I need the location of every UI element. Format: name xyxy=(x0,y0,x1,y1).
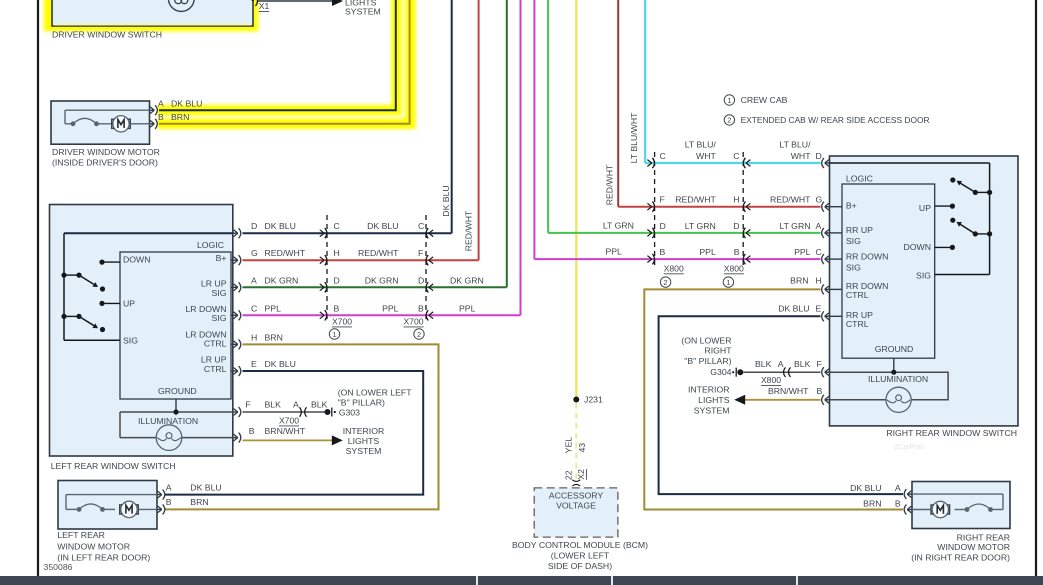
svg-text:PPL: PPL xyxy=(265,303,282,313)
svg-text:A: A xyxy=(166,482,172,492)
svg-text:ILLUMINATION: ILLUMINATION xyxy=(868,374,928,384)
svg-text:LIGHTS: LIGHTS xyxy=(348,436,380,446)
svg-text:WHT: WHT xyxy=(791,151,811,161)
svg-text:A: A xyxy=(158,98,164,108)
svg-text:B: B xyxy=(166,497,172,507)
svg-text:E: E xyxy=(816,304,822,314)
svg-text:X700: X700 xyxy=(403,317,423,327)
svg-text:LT BLU/: LT BLU/ xyxy=(779,140,811,150)
svg-text:RIGHT REAR: RIGHT REAR xyxy=(957,533,1010,543)
svg-text:2: 2 xyxy=(417,330,421,339)
svg-text:RED/WHT: RED/WHT xyxy=(605,164,615,205)
svg-text:D: D xyxy=(334,275,340,285)
svg-text:CTRL: CTRL xyxy=(204,364,227,374)
svg-text:SIDE OF DASH): SIDE OF DASH) xyxy=(548,561,612,571)
svg-text:PPL: PPL xyxy=(459,303,476,313)
svg-text:BLK: BLK xyxy=(794,359,811,369)
svg-text:H: H xyxy=(251,332,257,342)
svg-text:SYSTEM: SYSTEM xyxy=(345,7,381,17)
svg-text:1: 1 xyxy=(726,278,730,287)
svg-text:BRN: BRN xyxy=(190,497,208,507)
svg-text:B: B xyxy=(895,498,901,508)
svg-text:DOWN: DOWN xyxy=(903,242,931,252)
svg-text:LOGIC: LOGIC xyxy=(197,240,224,250)
svg-text:F: F xyxy=(817,359,822,369)
svg-text:LIGHTS: LIGHTS xyxy=(698,395,730,405)
svg-text:X1: X1 xyxy=(259,1,270,11)
svg-text:"B" PILLAR): "B" PILLAR) xyxy=(338,398,385,408)
svg-text:(ON LOWER: (ON LOWER xyxy=(681,336,731,346)
svg-text:WHT: WHT xyxy=(696,151,716,161)
svg-text:F: F xyxy=(245,400,250,410)
svg-text:EXTENDED CAB W/ REAR SIDE ACCE: EXTENDED CAB W/ REAR SIDE ACCESS DOOR xyxy=(741,115,930,125)
svg-text:PPL: PPL xyxy=(605,247,622,257)
svg-text:C: C xyxy=(733,151,739,161)
svg-text:2: 2 xyxy=(727,116,731,125)
svg-text:DK BLU: DK BLU xyxy=(265,221,296,231)
svg-text:C: C xyxy=(334,221,340,231)
svg-text:(IN RIGHT REAR DOOR): (IN RIGHT REAR DOOR) xyxy=(911,553,1010,563)
svg-text:2CarPros: 2CarPros xyxy=(894,444,924,451)
svg-text:PPL: PPL xyxy=(699,247,716,257)
svg-text:ACCESSORY: ACCESSORY xyxy=(549,491,604,501)
svg-text:A: A xyxy=(895,483,901,493)
svg-text:INTERIOR: INTERIOR xyxy=(343,426,385,436)
svg-text:INTERIOR: INTERIOR xyxy=(688,385,730,395)
svg-text:A: A xyxy=(778,359,784,369)
svg-text:C: C xyxy=(418,221,424,231)
svg-text:LEFT REAR: LEFT REAR xyxy=(57,530,105,540)
svg-text:C: C xyxy=(816,247,822,257)
svg-text:G303: G303 xyxy=(339,408,360,418)
svg-text:BRN/WHT: BRN/WHT xyxy=(265,426,306,436)
svg-text:CREW CAB: CREW CAB xyxy=(741,95,788,105)
svg-text:D: D xyxy=(816,151,822,161)
svg-text:DK BLU: DK BLU xyxy=(367,221,398,231)
svg-text:SIG: SIG xyxy=(212,288,227,298)
svg-text:C: C xyxy=(251,303,257,313)
svg-text:DK BLU: DK BLU xyxy=(441,185,451,216)
svg-text:BRN: BRN xyxy=(863,498,881,508)
svg-text:X800: X800 xyxy=(761,375,781,385)
svg-text:BODY CONTROL MODULE (BCM): BODY CONTROL MODULE (BCM) xyxy=(512,540,648,550)
svg-text:UP: UP xyxy=(123,299,135,309)
svg-text:RED/WHT: RED/WHT xyxy=(358,248,399,258)
svg-text:RED/WHT: RED/WHT xyxy=(265,248,306,258)
svg-text:H: H xyxy=(816,276,822,286)
svg-text:DK BLU: DK BLU xyxy=(778,304,809,314)
svg-text:C: C xyxy=(660,151,666,161)
svg-text:LOGIC: LOGIC xyxy=(846,173,873,183)
svg-text:BRN: BRN xyxy=(171,112,189,122)
svg-text:SIG: SIG xyxy=(123,335,138,345)
svg-text:SIG: SIG xyxy=(916,271,931,281)
svg-text:(ON LOWER LEFT: (ON LOWER LEFT xyxy=(338,388,413,398)
svg-text:LT BLU/WHT: LT BLU/WHT xyxy=(629,112,639,164)
svg-text:SIG: SIG xyxy=(846,236,861,246)
svg-text:J231: J231 xyxy=(584,395,603,405)
svg-text:G: G xyxy=(251,248,258,258)
svg-text:SIG: SIG xyxy=(212,313,227,323)
svg-text:BRN/WHT: BRN/WHT xyxy=(768,386,809,396)
svg-text:43: 43 xyxy=(577,443,587,453)
svg-text:H: H xyxy=(733,195,739,205)
svg-text:B: B xyxy=(734,247,740,257)
svg-text:ILLUMINATION: ILLUMINATION xyxy=(138,416,198,426)
svg-text:"B" PILLAR): "B" PILLAR) xyxy=(684,356,731,366)
svg-text:DK BLU: DK BLU xyxy=(265,359,296,369)
svg-text:BLK: BLK xyxy=(265,400,282,410)
svg-text:G304: G304 xyxy=(710,367,731,377)
svg-text:LEFT REAR WINDOW SWITCH: LEFT REAR WINDOW SWITCH xyxy=(51,461,176,471)
svg-text:RR DOWN: RR DOWN xyxy=(846,251,888,261)
svg-text:UP: UP xyxy=(919,203,931,213)
svg-text:A: A xyxy=(816,221,822,231)
svg-text:GROUND: GROUND xyxy=(875,344,914,354)
svg-text:2: 2 xyxy=(664,278,668,287)
svg-text:CTRL: CTRL xyxy=(846,319,869,329)
svg-text:RR UP: RR UP xyxy=(846,225,873,235)
svg-text:X700: X700 xyxy=(332,317,352,327)
svg-text:DRIVER WINDOW MOTOR: DRIVER WINDOW MOTOR xyxy=(52,147,160,157)
svg-text:WINDOW MOTOR: WINDOW MOTOR xyxy=(937,542,1010,552)
svg-text:DK BLU: DK BLU xyxy=(190,482,221,492)
svg-text:A: A xyxy=(251,275,257,285)
svg-text:WINDOW MOTOR: WINDOW MOTOR xyxy=(57,542,130,552)
svg-text:DK GRN: DK GRN xyxy=(450,276,484,286)
svg-text:BLK: BLK xyxy=(311,400,328,410)
svg-text:G: G xyxy=(816,195,823,205)
svg-text:X800: X800 xyxy=(724,263,744,273)
svg-text:PPL: PPL xyxy=(794,247,811,257)
svg-text:LT GRN: LT GRN xyxy=(779,221,810,231)
svg-text:RED/WHT: RED/WHT xyxy=(464,210,474,251)
svg-text:(LOWER LEFT: (LOWER LEFT xyxy=(551,551,610,561)
svg-text:350086: 350086 xyxy=(44,562,73,572)
svg-text:F: F xyxy=(660,195,665,205)
svg-text:X2: X2 xyxy=(576,469,586,480)
svg-text:E: E xyxy=(251,359,257,369)
svg-text:SYSTEM: SYSTEM xyxy=(694,406,730,416)
svg-text:VOLTAGE: VOLTAGE xyxy=(556,501,596,511)
svg-text:B: B xyxy=(334,303,340,313)
svg-text:LT GRN: LT GRN xyxy=(603,220,634,230)
svg-text:1: 1 xyxy=(332,330,336,339)
svg-text:LT BLU/: LT BLU/ xyxy=(685,140,717,150)
svg-text:BRN: BRN xyxy=(790,276,808,286)
svg-text:B: B xyxy=(418,303,424,313)
svg-text:PPL: PPL xyxy=(382,303,399,313)
svg-text:DK BLU: DK BLU xyxy=(171,98,202,108)
svg-text:B: B xyxy=(817,386,823,396)
svg-text:D: D xyxy=(251,221,257,231)
svg-text:DOWN: DOWN xyxy=(123,255,151,265)
svg-text:DK BLU: DK BLU xyxy=(850,483,881,493)
svg-text:F: F xyxy=(418,248,423,258)
svg-text:CTRL: CTRL xyxy=(204,338,227,348)
svg-text:GROUND: GROUND xyxy=(158,386,197,396)
svg-text:YEL: YEL xyxy=(563,437,573,454)
svg-text:SIG: SIG xyxy=(846,262,861,272)
svg-text:1: 1 xyxy=(727,96,731,105)
svg-text:X700: X700 xyxy=(279,416,299,426)
svg-text:CTRL: CTRL xyxy=(846,290,869,300)
svg-text:A: A xyxy=(293,400,299,410)
svg-text:(INSIDE DRIVER'S DOOR): (INSIDE DRIVER'S DOOR) xyxy=(52,158,158,168)
svg-text:RED/WHT: RED/WHT xyxy=(770,195,811,205)
svg-text:RIGHT REAR WINDOW SWITCH: RIGHT REAR WINDOW SWITCH xyxy=(886,428,1017,438)
svg-text:D: D xyxy=(733,221,739,231)
svg-text:B+: B+ xyxy=(846,201,857,211)
svg-text:B+: B+ xyxy=(216,253,227,263)
svg-text:LT GRN: LT GRN xyxy=(685,221,716,231)
svg-text:DK GRN: DK GRN xyxy=(365,275,399,285)
svg-text:22: 22 xyxy=(564,470,574,480)
svg-text:RED/WHT: RED/WHT xyxy=(675,195,716,205)
svg-text:D: D xyxy=(660,221,666,231)
svg-text:RIGHT: RIGHT xyxy=(704,345,732,355)
svg-text:X800: X800 xyxy=(664,263,684,273)
svg-text:B: B xyxy=(158,112,164,122)
svg-text:SYSTEM: SYSTEM xyxy=(346,446,382,456)
svg-text:BRN: BRN xyxy=(265,332,283,342)
svg-text:D: D xyxy=(418,275,424,285)
svg-text:BLK: BLK xyxy=(755,359,772,369)
svg-text:H: H xyxy=(334,248,340,258)
svg-text:B: B xyxy=(249,426,255,436)
svg-text:DK GRN: DK GRN xyxy=(265,275,299,285)
svg-text:DRIVER WINDOW SWITCH: DRIVER WINDOW SWITCH xyxy=(52,30,162,40)
svg-text:B: B xyxy=(660,247,666,257)
